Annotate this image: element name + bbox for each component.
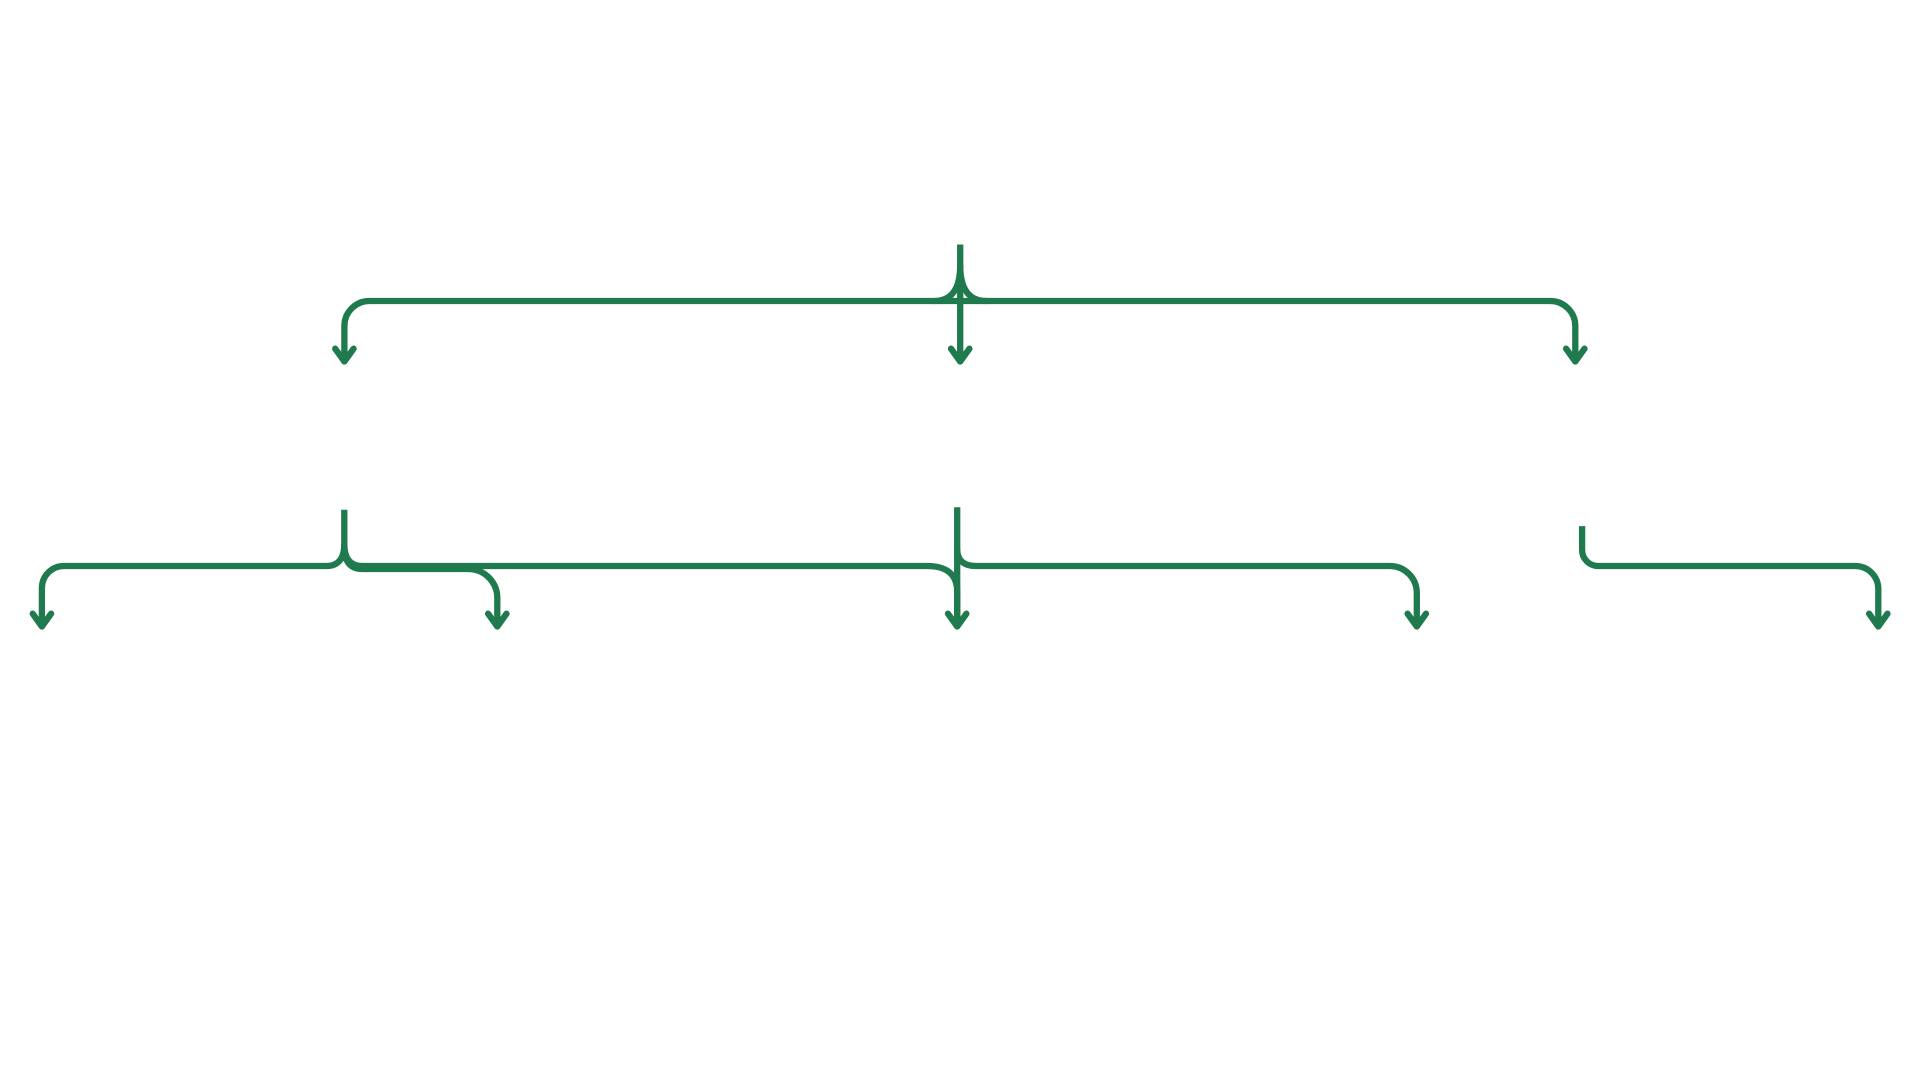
top crossbar with end drops — [344, 301, 1575, 356]
node C stem and arrow shaft — [954, 507, 960, 621]
top junction right fillet — [960, 265, 986, 301]
arrowhead B-left — [33, 614, 51, 627]
top stem (node A vertical) — [957, 245, 963, 362]
arrowhead A-right — [1566, 349, 1584, 362]
link B to node C (merges into C stem) — [344, 544, 957, 621]
arrowhead A-center — [951, 349, 969, 362]
node D stub and link to right arrow — [1582, 526, 1878, 621]
node B stem — [341, 510, 347, 561]
top junction left fillet — [934, 265, 960, 301]
arrowhead C-right — [1408, 614, 1426, 627]
arrowhead A-left — [335, 349, 353, 362]
arrowhead C-center — [948, 614, 966, 627]
link B to drop arrow (x 497) — [344, 547, 497, 621]
arrowhead drop-497 — [488, 614, 506, 627]
link B to left arrow — [42, 544, 344, 621]
arrowhead D-right — [1869, 614, 1887, 627]
link C to right arrow — [957, 549, 1417, 621]
